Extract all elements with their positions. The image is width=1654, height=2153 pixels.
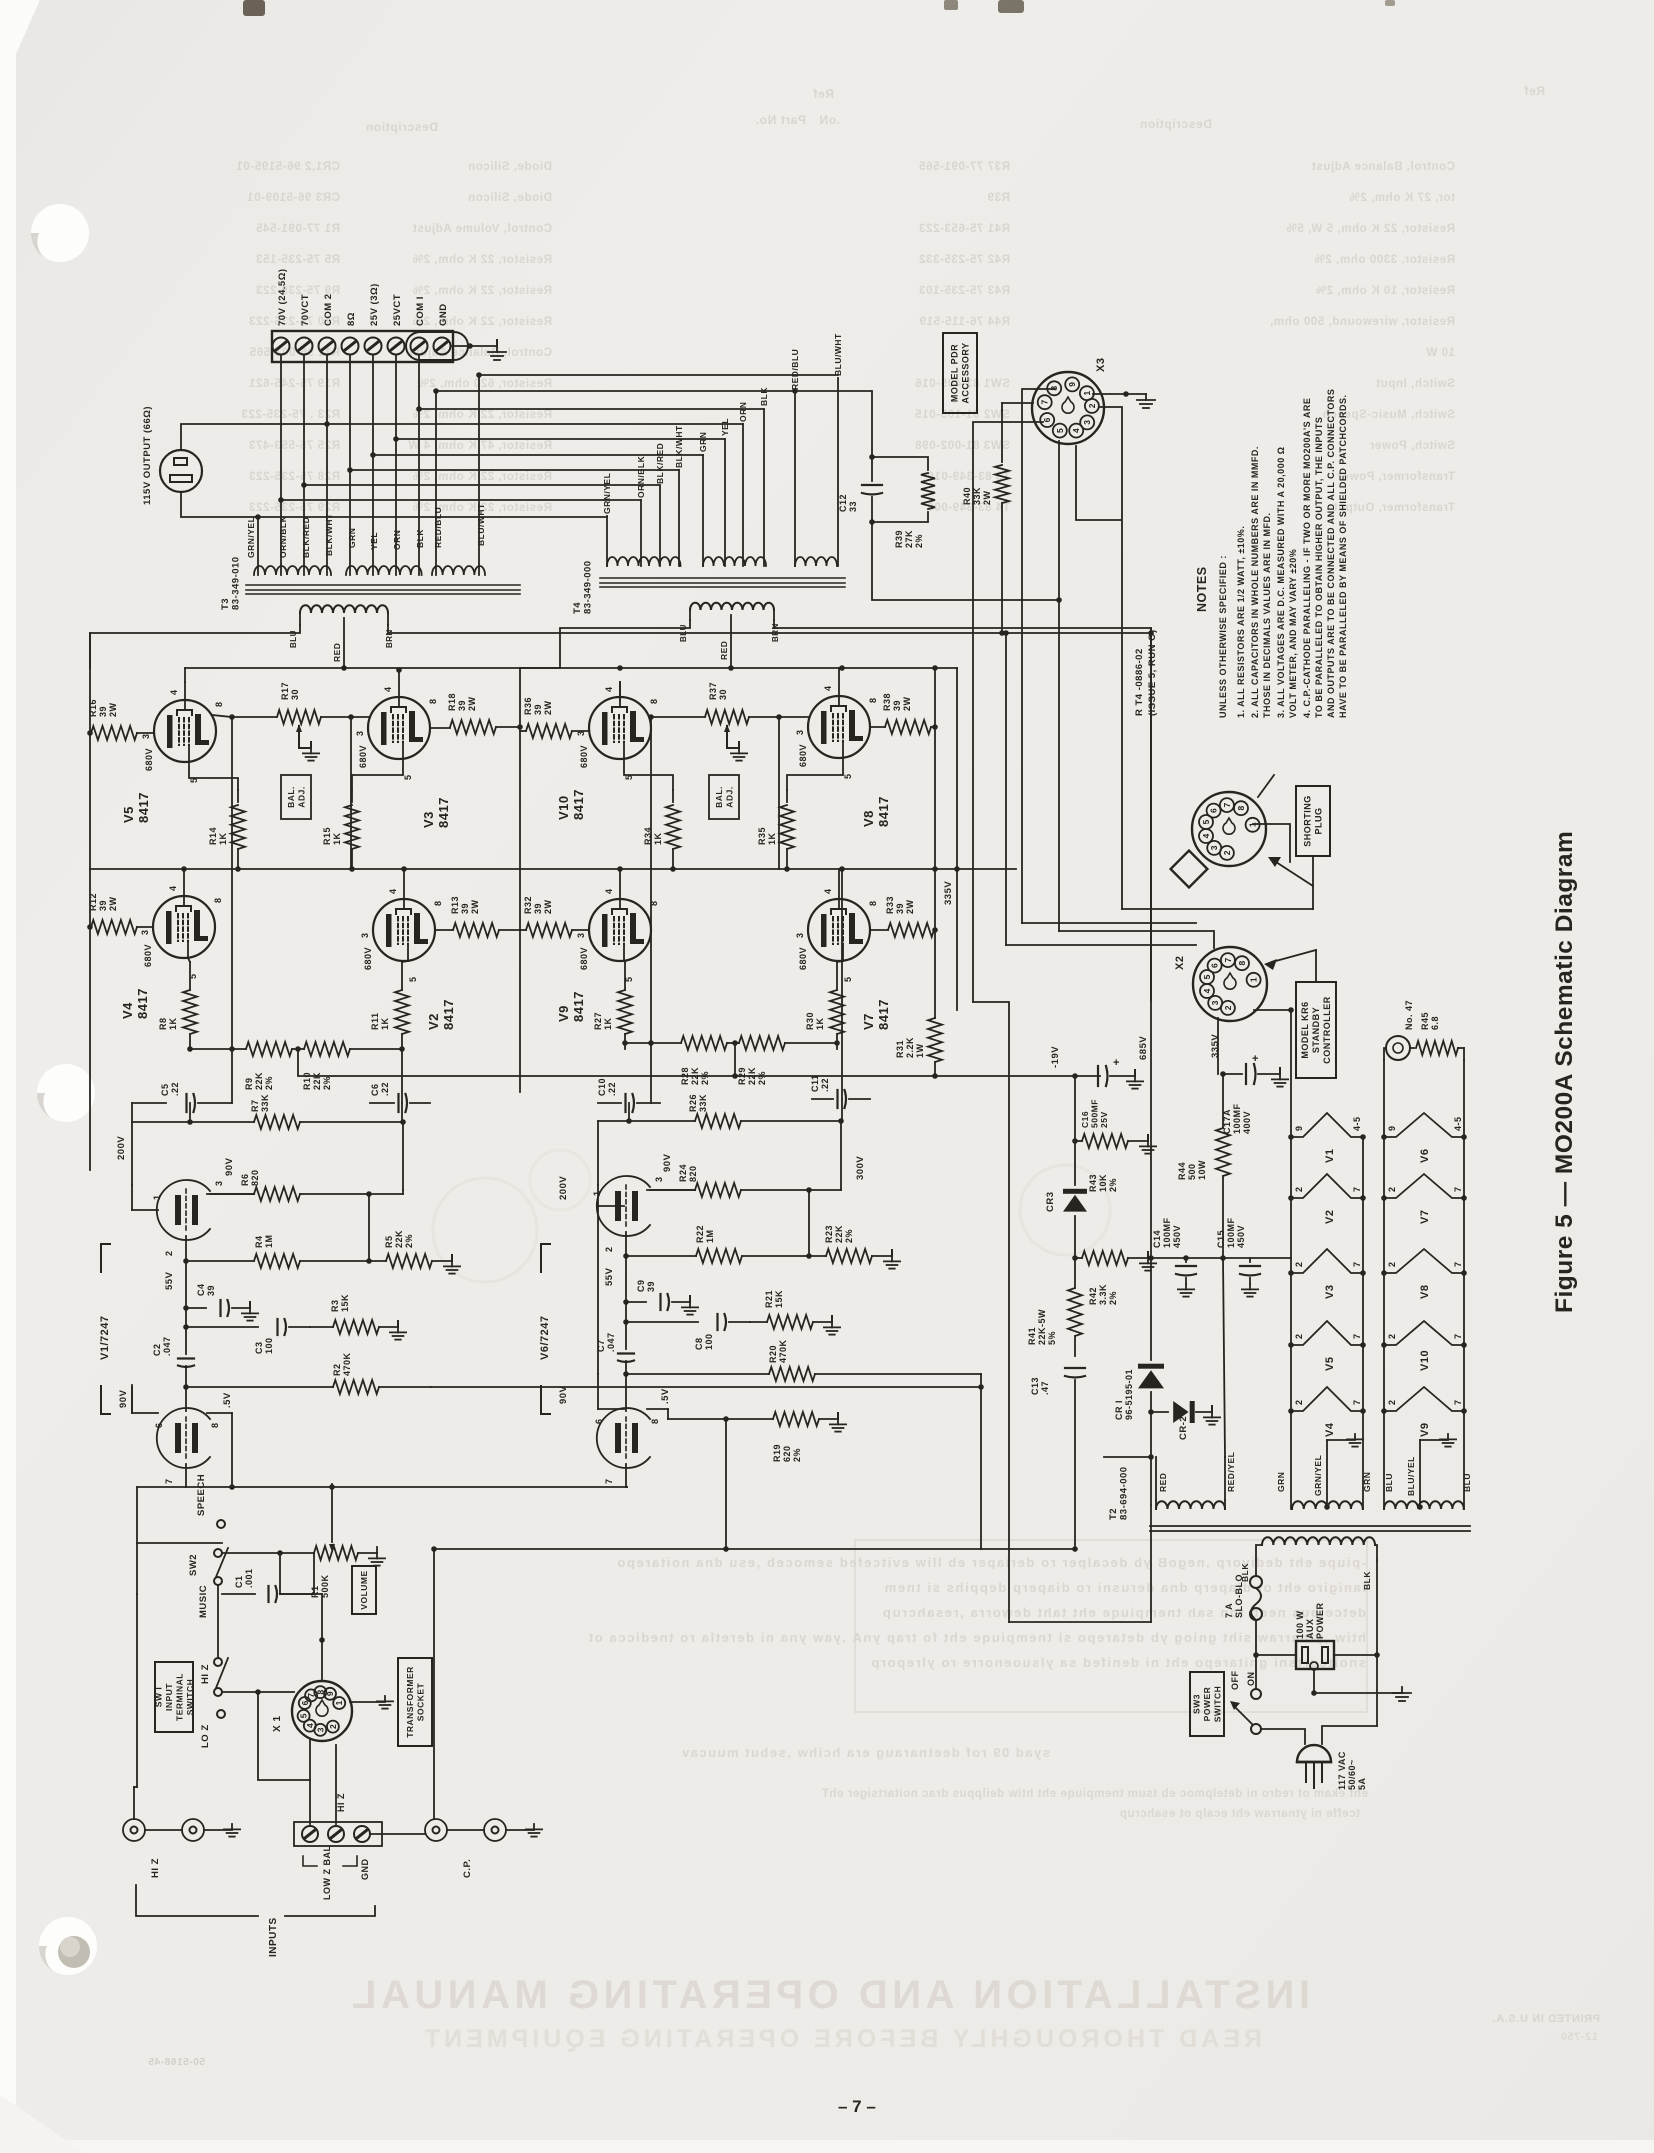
svg-text:4: 4: [388, 888, 398, 894]
wire C2 to grid bus: [185, 1366, 187, 1387]
ground (power): [1393, 1687, 1411, 1701]
T2 grn center tap: [1324, 1504, 1330, 1510]
svg-text:2: 2: [1387, 1333, 1397, 1339]
svg-text:R11: R11: [370, 1012, 380, 1030]
svg-text:.5V: .5V: [660, 1388, 671, 1404]
resistor R43 10K 2%: [1074, 1076, 1076, 1141]
svg-text:30: 30: [290, 689, 300, 700]
svg-text:1K: 1K: [815, 1017, 825, 1030]
wire V6A plate (pin1): [597, 1185, 599, 1206]
svg-text:ORN: ORN: [392, 530, 402, 550]
svg-text:V5: V5: [1324, 1357, 1336, 1371]
wire 25VCT screw drop: [395, 355, 397, 575]
svg-text:C.P.: C.P.: [462, 1859, 473, 1878]
svg-text:30: 30: [718, 689, 728, 700]
capacitor C4 39: [186, 1307, 206, 1309]
svg-text:2: 2: [1387, 1186, 1397, 1192]
tube V2 8417: [373, 899, 435, 961]
wire gnd node to ground: [1314, 1692, 1402, 1694]
capacitor C5 .22: [132, 1102, 166, 1104]
T2 grn center tap riser: [1326, 1440, 1328, 1506]
svg-text:5: 5: [299, 1713, 309, 1718]
wire COM1 screw drop: [418, 355, 420, 575]
svg-text:39: 39: [460, 903, 470, 914]
svg-text:500MF: 500MF: [1090, 1099, 1100, 1128]
svg-text:4: 4: [169, 689, 179, 695]
resistor R7 33K: [132, 1121, 254, 1123]
svg-text:R32: R32: [523, 896, 533, 914]
V3 pin4 lead: [398, 670, 400, 697]
svg-text:5: 5: [843, 773, 853, 779]
svg-text:V3: V3: [421, 811, 436, 828]
wire X3 pin7 left: [1002, 402, 1033, 404]
svg-text:RED/BLU: RED/BLU: [790, 349, 800, 390]
wire 70V screw drop: [280, 355, 282, 575]
svg-text:C12: C12: [838, 494, 848, 512]
ground (R19): [830, 1419, 846, 1432]
svg-text:2: 2: [1294, 1399, 1304, 1405]
svg-text:1K: 1K: [653, 832, 663, 845]
wire bus y500 (ORN/BLK): [281, 499, 641, 501]
svg-text:LO Z: LO Z: [200, 1724, 211, 1748]
resistor R10 22K 2%: [304, 1042, 350, 1056]
wire strip to CP jack: [370, 1833, 425, 1835]
svg-text:R10: R10: [302, 1072, 312, 1090]
svg-text:C3: C3: [254, 1341, 264, 1354]
switch SW1a HI Z: [214, 1658, 222, 1666]
wire X3 pin2 drop: [1099, 407, 1122, 909]
capacitor C17A 100MF 400V: [1220, 1071, 1226, 1077]
wire V3 pin5 to R15: [352, 759, 403, 790]
capacitor C8 100: [626, 1321, 698, 1323]
svg-text:3. ALL VOLTAGES ARE D.C. M: 3. ALL VOLTAGES ARE D.C. MEASURED WITH A…: [1276, 447, 1286, 718]
svg-text:C5: C5: [160, 1083, 170, 1096]
wire V1B cathode pin7: [185, 1464, 187, 1487]
wire V1 cathode chain down: [185, 1261, 187, 1308]
jack C.P. 2: [484, 1819, 506, 1841]
svg-text:2: 2: [1222, 850, 1232, 855]
svg-text:No. 47: No. 47: [1404, 1000, 1414, 1030]
svg-text:R24: R24: [678, 1164, 688, 1182]
resistor R33 39 2W: [888, 923, 934, 937]
svg-text:4-5: 4-5: [1453, 1116, 1463, 1131]
bottom terminal strip: [294, 1822, 382, 1846]
svg-text:C10: C10: [597, 1078, 607, 1096]
svg-text:+: +: [1113, 1057, 1119, 1069]
svg-text:BLU/YEL: BLU/YEL: [1406, 1456, 1416, 1496]
resistor R21 15K: [750, 1321, 767, 1323]
svg-text:9: 9: [1294, 1125, 1304, 1131]
svg-text:Resistor, 47 K ohm, 4 W: Resistor, 47 K ohm, 4 W: [408, 440, 552, 452]
svg-text:COM I: COM I: [415, 296, 426, 326]
T2 winding RED: [1156, 1501, 1225, 1509]
wire right rail to plug: [1322, 1726, 1377, 1744]
input jack HI Z 2: [182, 1819, 204, 1841]
svg-text:SW I: SW I: [153, 1687, 163, 1707]
heater V9: [1384, 1387, 1464, 1411]
wire T2 red lead: [1155, 1457, 1157, 1500]
svg-text:GND: GND: [360, 1859, 370, 1881]
svg-text:R36: R36: [523, 697, 533, 715]
wire R19 node down: [725, 1419, 727, 1549]
svg-text:CONTROLLER: CONTROLLER: [1322, 996, 1332, 1064]
resistor R24 820: [647, 1189, 695, 1191]
svg-text:Diode, Silicon: Diode, Silicon: [468, 161, 552, 173]
svg-text:6: 6: [1209, 808, 1219, 813]
wire x1059 elbow to X2: [1059, 931, 1214, 948]
svg-text:9: 9: [1067, 382, 1077, 387]
svg-text:C9: C9: [636, 1279, 646, 1292]
svg-text:90V: 90V: [558, 1385, 569, 1404]
wire bus y375 (BLU/WHT): [479, 374, 838, 376]
svg-text:ADJ.: ADJ.: [296, 786, 306, 807]
triode V6B: [597, 1408, 650, 1468]
capacitor C1 .001: [279, 1553, 281, 1594]
svg-text:.047: .047: [162, 1336, 172, 1356]
svg-text:.047: .047: [606, 1332, 616, 1352]
svg-text:TRANSFORMER: TRANSFORMER: [405, 1666, 415, 1738]
svg-text:22K: 22K: [312, 1072, 322, 1090]
svg-text:100: 100: [704, 1333, 714, 1350]
svg-text:GRN: GRN: [698, 432, 708, 452]
svg-text:2%: 2%: [757, 1071, 767, 1085]
svg-text:4. C.P.-CATHODE PARALLELING: 4. C.P.-CATHODE PARALLELING - IF TWO OR …: [1302, 398, 1312, 718]
arrow to shorting plug: [1276, 856, 1313, 886]
svg-text:SWITCH: SWITCH: [185, 1679, 195, 1716]
box SW1 INPUT TERMINAL SWITCH: [155, 1662, 193, 1732]
resistor R14 1K: [237, 790, 239, 802]
svg-text:2: 2: [1294, 1333, 1304, 1339]
wire SW2 common: [222, 1552, 314, 1554]
vertical x779: [778, 717, 780, 869]
svg-text:V4: V4: [1324, 1422, 1336, 1437]
svg-text:470K: 470K: [778, 1339, 788, 1363]
diode CR3: [1074, 1141, 1076, 1185]
heater V10: [1384, 1321, 1464, 1345]
svg-text:7: 7: [1352, 1399, 1362, 1405]
svg-text:Part No.: Part No.: [755, 113, 806, 127]
svg-text:RED: RED: [719, 641, 729, 660]
svg-text:X2: X2: [1174, 956, 1186, 970]
wire V6B pin8 to R19: [647, 1408, 668, 1410]
svg-text:R T4 -0886-02: R T4 -0886-02: [1134, 648, 1145, 716]
svg-text:2.2K: 2.2K: [905, 1037, 915, 1058]
svg-text:100MF: 100MF: [1232, 1103, 1242, 1134]
svg-text:70V (24.5Ω): 70V (24.5Ω): [277, 269, 288, 326]
resistor R3 15K: [333, 1320, 379, 1334]
svg-text:Resistor, 22 K ohm, 2%: Resistor, 22 K ohm, 2%: [412, 409, 552, 421]
svg-text:7: 7: [1453, 1399, 1463, 1405]
svg-text:3: 3: [360, 932, 370, 938]
T4 secondary group B: [703, 557, 766, 566]
svg-text:39: 39: [457, 700, 467, 711]
svg-text:6: 6: [300, 1700, 310, 1705]
diode CR1 96-5195-01: [1138, 1370, 1164, 1388]
svg-text:50/60~: 50/60~: [1347, 1759, 1357, 1790]
wire x1006 elbow to X2: [1006, 944, 1196, 946]
heater V4: [1291, 1387, 1363, 1411]
svg-text:V5: V5: [121, 806, 136, 823]
115V output plug J1: [160, 450, 202, 492]
svg-text:1M: 1M: [264, 1234, 274, 1248]
svg-text:6: 6: [154, 1422, 164, 1428]
tube socket X1: [292, 1681, 352, 1741]
svg-text:R37: R37: [708, 682, 718, 700]
svg-text:2%: 2%: [792, 1448, 802, 1462]
svg-text:8417: 8417: [876, 999, 891, 1030]
svg-text:3: 3: [654, 1176, 664, 1182]
resistor R20 470K: [626, 1373, 769, 1375]
svg-text:90V: 90V: [662, 1153, 673, 1172]
svg-text:8: 8: [433, 900, 443, 906]
svg-text:2W: 2W: [543, 700, 553, 715]
plate load wire left: [131, 1103, 133, 1122]
resistor R6 820: [207, 1193, 254, 1195]
svg-text:Resistor, 22 K ohm, 5 W, 5%: Resistor, 22 K ohm, 5 W, 5%: [1286, 223, 1455, 235]
INPUTS bracket: [136, 1885, 258, 1916]
svg-text:ON: ON: [1246, 1672, 1256, 1687]
svg-text:8417: 8417: [136, 792, 151, 823]
svg-text:BLK/WHT: BLK/WHT: [324, 513, 334, 556]
svg-text:3: 3: [140, 929, 150, 935]
svg-text:4: 4: [383, 686, 393, 692]
resistor R26 33K: [598, 1120, 695, 1122]
svg-text:7: 7: [1352, 1186, 1362, 1192]
svg-text:5: 5: [1201, 819, 1211, 824]
svg-text:HI Z: HI Z: [336, 1793, 346, 1812]
wire V7 pin5: [837, 961, 843, 962]
svg-text:RED: RED: [332, 643, 342, 662]
svg-text:4: 4: [1071, 428, 1081, 433]
svg-text:-piupe eht dedivorp ,negoB yb: -piupe eht dedivorp ,negoB yb decalper r…: [616, 1555, 1366, 1570]
svg-text:2W: 2W: [902, 696, 912, 711]
triode V1B: [157, 1408, 210, 1468]
wire V6 pin7 line: [626, 1486, 627, 1488]
heater V1: [1291, 1113, 1363, 1137]
rail heater col2 left: [1383, 1060, 1385, 1509]
svg-text:15K: 15K: [774, 1290, 784, 1308]
svg-text:8417: 8417: [571, 991, 586, 1022]
ground (R1): [369, 1553, 385, 1566]
svg-text:T3: T3: [220, 598, 231, 610]
svg-text:2W: 2W: [108, 702, 118, 717]
vertical x434 volume bus: [433, 1549, 435, 1819]
svg-text:55V: 55V: [604, 1267, 615, 1286]
svg-text:BLU: BLU: [679, 624, 688, 642]
svg-text:V3: V3: [1324, 1285, 1336, 1299]
svg-text:3: 3: [1082, 420, 1092, 425]
svg-text:eht ekam ot redro ni detelpmoc: eht ekam ot redro ni detelpmoc eb tsum t…: [821, 1788, 1368, 1800]
svg-text:8417: 8417: [441, 999, 456, 1030]
wire X1 top pin up: [321, 1640, 323, 1681]
svg-text:SPEECH: SPEECH: [196, 1474, 207, 1516]
svg-text:V9: V9: [1419, 1423, 1431, 1437]
svg-text:90V: 90V: [118, 1389, 129, 1408]
svg-text:syad 09 rof deetnaraug era hci: syad 09 rof deetnaraug era hcihw ,sebut …: [680, 1745, 1050, 1760]
ground (C14): [1178, 1284, 1194, 1297]
svg-text:7: 7: [1352, 1333, 1362, 1339]
tube V10 8417: [589, 697, 651, 759]
svg-text:.001: .001: [244, 1568, 254, 1588]
svg-text:GND: GND: [438, 303, 449, 326]
svg-text:R27: R27: [593, 1012, 603, 1030]
svg-text:400V: 400V: [1242, 1111, 1252, 1134]
svg-text:83-349-010: 83-349-010: [231, 556, 242, 610]
svg-text:2: 2: [1087, 403, 1097, 408]
V2 pin4 lead: [403, 869, 405, 899]
svg-text:3.3K: 3.3K: [1098, 1284, 1108, 1305]
svg-text:39: 39: [895, 903, 905, 914]
input jack HI Z 1: [123, 1819, 145, 1841]
svg-text:ORN: ORN: [738, 402, 748, 422]
svg-text:685V: 685V: [1138, 1036, 1149, 1060]
vertical x232 (V5 plate node): [231, 717, 233, 1049]
ground (CP): [526, 1824, 542, 1837]
svg-text:3: 3: [576, 932, 586, 938]
svg-text:SW2 81-105-015: SW2 81-105-015: [915, 409, 1010, 421]
svg-text:AND OUTPUTS ARE TO BE CONNECTE: AND OUTPUTS ARE TO BE CONNECTED AND ALL …: [1326, 389, 1336, 718]
svg-text:1K: 1K: [603, 1017, 613, 1030]
vertical rail x520: [519, 668, 521, 1092]
svg-text:820: 820: [688, 1165, 698, 1182]
ground (X3): [1137, 394, 1155, 408]
svg-text:MUSIC: MUSIC: [198, 1585, 209, 1618]
capacitor C7 .047: [625, 1322, 627, 1349]
svg-text:INPUT: INPUT: [164, 1683, 174, 1711]
svg-text:1: 1: [592, 1190, 602, 1196]
svg-text:5: 5: [408, 976, 418, 982]
svg-text:BLU/WHT: BLU/WHT: [476, 503, 486, 546]
wire KR6 top stub: [1315, 950, 1317, 982]
resistor R37 30 (BAL): [619, 682, 621, 700]
svg-text:55V: 55V: [164, 1271, 175, 1290]
vertical x351: [350, 717, 352, 869]
svg-text:R23: R23: [824, 1225, 834, 1243]
svg-text:BLK/WHT: BLK/WHT: [674, 425, 684, 468]
svg-text:R4: R4: [254, 1235, 264, 1248]
svg-text:BLU: BLU: [289, 630, 298, 648]
svg-text:RED/YEL: RED/YEL: [1226, 1452, 1236, 1492]
wire bus down left x137: [136, 1487, 138, 1543]
svg-text:R41: R41: [1027, 1327, 1037, 1345]
svg-text:10W: 10W: [1197, 1160, 1207, 1180]
triode V6A: [597, 1176, 650, 1236]
svg-text:70VCT: 70VCT: [300, 294, 311, 326]
svg-text:96-5195-01: 96-5195-01: [1124, 1369, 1134, 1420]
screw terminal 1: [273, 338, 290, 355]
wire V6B plate pin6: [597, 1374, 599, 1409]
svg-text:Description: Description: [365, 120, 438, 134]
svg-text:lanigiro eht ot diaperp dna de: lanigiro eht ot diaperp dna derusni ro d…: [883, 1580, 1366, 1595]
wire R33 leads: [870, 929, 888, 931]
svg-text:90V: 90V: [224, 1157, 235, 1176]
resistor R41 22K-5W 5%: [1074, 1258, 1076, 1288]
svg-text:R33: R33: [885, 896, 895, 914]
resistor R1 500K volume pot: [313, 1553, 315, 1594]
svg-text:MODEL PDR: MODEL PDR: [950, 344, 960, 402]
svg-text:4: 4: [1202, 988, 1212, 993]
svg-text:.22: .22: [380, 1082, 390, 1096]
T2 primary leads: [1256, 1545, 1262, 1560]
svg-text:R43 75-235-103: R43 75-235-103: [918, 285, 1010, 297]
switch SW2: [214, 1549, 222, 1557]
svg-text:4: 4: [604, 888, 614, 894]
svg-text:680V: 680V: [579, 947, 589, 970]
ground (CR-2): [1204, 1412, 1220, 1425]
svg-text:BLK/RED: BLK/RED: [301, 517, 311, 558]
svg-text:V9: V9: [556, 1005, 571, 1022]
screw terminal 2: [296, 338, 313, 355]
svg-text:T4: T4: [572, 602, 583, 614]
svg-text:33K: 33K: [260, 1094, 270, 1112]
svg-text:39: 39: [98, 706, 108, 717]
svg-text:SW3: SW3: [1192, 1694, 1202, 1714]
V9 pin4 lead: [619, 869, 621, 899]
oval around COM1+GND screws: [406, 332, 468, 360]
wire C6 node down: [402, 1122, 404, 1190]
junction R28/R29: [727, 1042, 739, 1044]
T4 secondary group C: [795, 557, 837, 566]
wire R12 to V4: [137, 926, 153, 928]
wire 70VCT screw drop: [303, 355, 305, 575]
svg-text:Control, Balance Adjust: Control, Balance Adjust: [408, 347, 552, 359]
wire V1B grid line: [185, 1387, 187, 1411]
svg-text:22K: 22K: [394, 1230, 404, 1248]
svg-text:R39: R39: [987, 192, 1010, 204]
resistor R36 39 2W: [526, 724, 572, 738]
tube V5 8417: [154, 700, 216, 762]
wire node to V8 pin8: [779, 716, 808, 718]
svg-text:39: 39: [98, 900, 108, 911]
svg-text:1K: 1K: [168, 1017, 178, 1030]
svg-text:2%: 2%: [1108, 1291, 1118, 1305]
svg-text:Control, Volume Adjust: Control, Volume Adjust: [412, 223, 552, 235]
wire SW2-SW1 link: [217, 1585, 219, 1658]
resistor R11 1K: [401, 962, 403, 990]
wire plate rail drops: [131, 1122, 133, 1185]
svg-text:680V: 680V: [798, 947, 808, 970]
tube socket X3: [1032, 372, 1104, 444]
svg-text:7: 7: [1352, 1261, 1362, 1267]
svg-text:4: 4: [305, 1723, 315, 1728]
svg-text:3: 3: [315, 1727, 325, 1732]
svg-text:4: 4: [604, 686, 614, 692]
wire X2 pin2 node: [1254, 1009, 1291, 1011]
svg-text:3: 3: [355, 730, 365, 736]
svg-text:22K-5W: 22K-5W: [1037, 1309, 1047, 1345]
wire bias bottom to bus: [1072, 1546, 1078, 1552]
resistor R44 500 10W: [1222, 1074, 1224, 1128]
wire R32 leads: [520, 929, 526, 931]
svg-text:470K: 470K: [342, 1352, 352, 1376]
svg-text:6: 6: [1210, 963, 1220, 968]
svg-text:R19: R19: [772, 1444, 782, 1462]
svg-text:R1: R1: [310, 1585, 320, 1598]
wire V1A pin3 to R6: [210, 1193, 254, 1195]
svg-text:SLO-BLO: SLO-BLO: [1234, 1574, 1244, 1618]
svg-text:tceffe ni ytnarraw eht ecalp o: tceffe ni ytnarraw eht ecalp ot esahcrup: [1119, 1808, 1360, 1820]
wire music bus: [136, 1543, 138, 1594]
svg-text:2%: 2%: [914, 534, 924, 548]
ground (R37): [731, 748, 747, 761]
resistor R27 1K: [624, 962, 626, 990]
svg-text:MODEL KR6: MODEL KR6: [1300, 1001, 1310, 1058]
svg-text:SW2: SW2: [188, 1554, 199, 1576]
svg-text:1: 1: [152, 1194, 162, 1200]
resistor R30 1K: [836, 962, 838, 990]
svg-text:C13: C13: [1030, 1377, 1040, 1395]
R15 join 869: [349, 866, 355, 872]
